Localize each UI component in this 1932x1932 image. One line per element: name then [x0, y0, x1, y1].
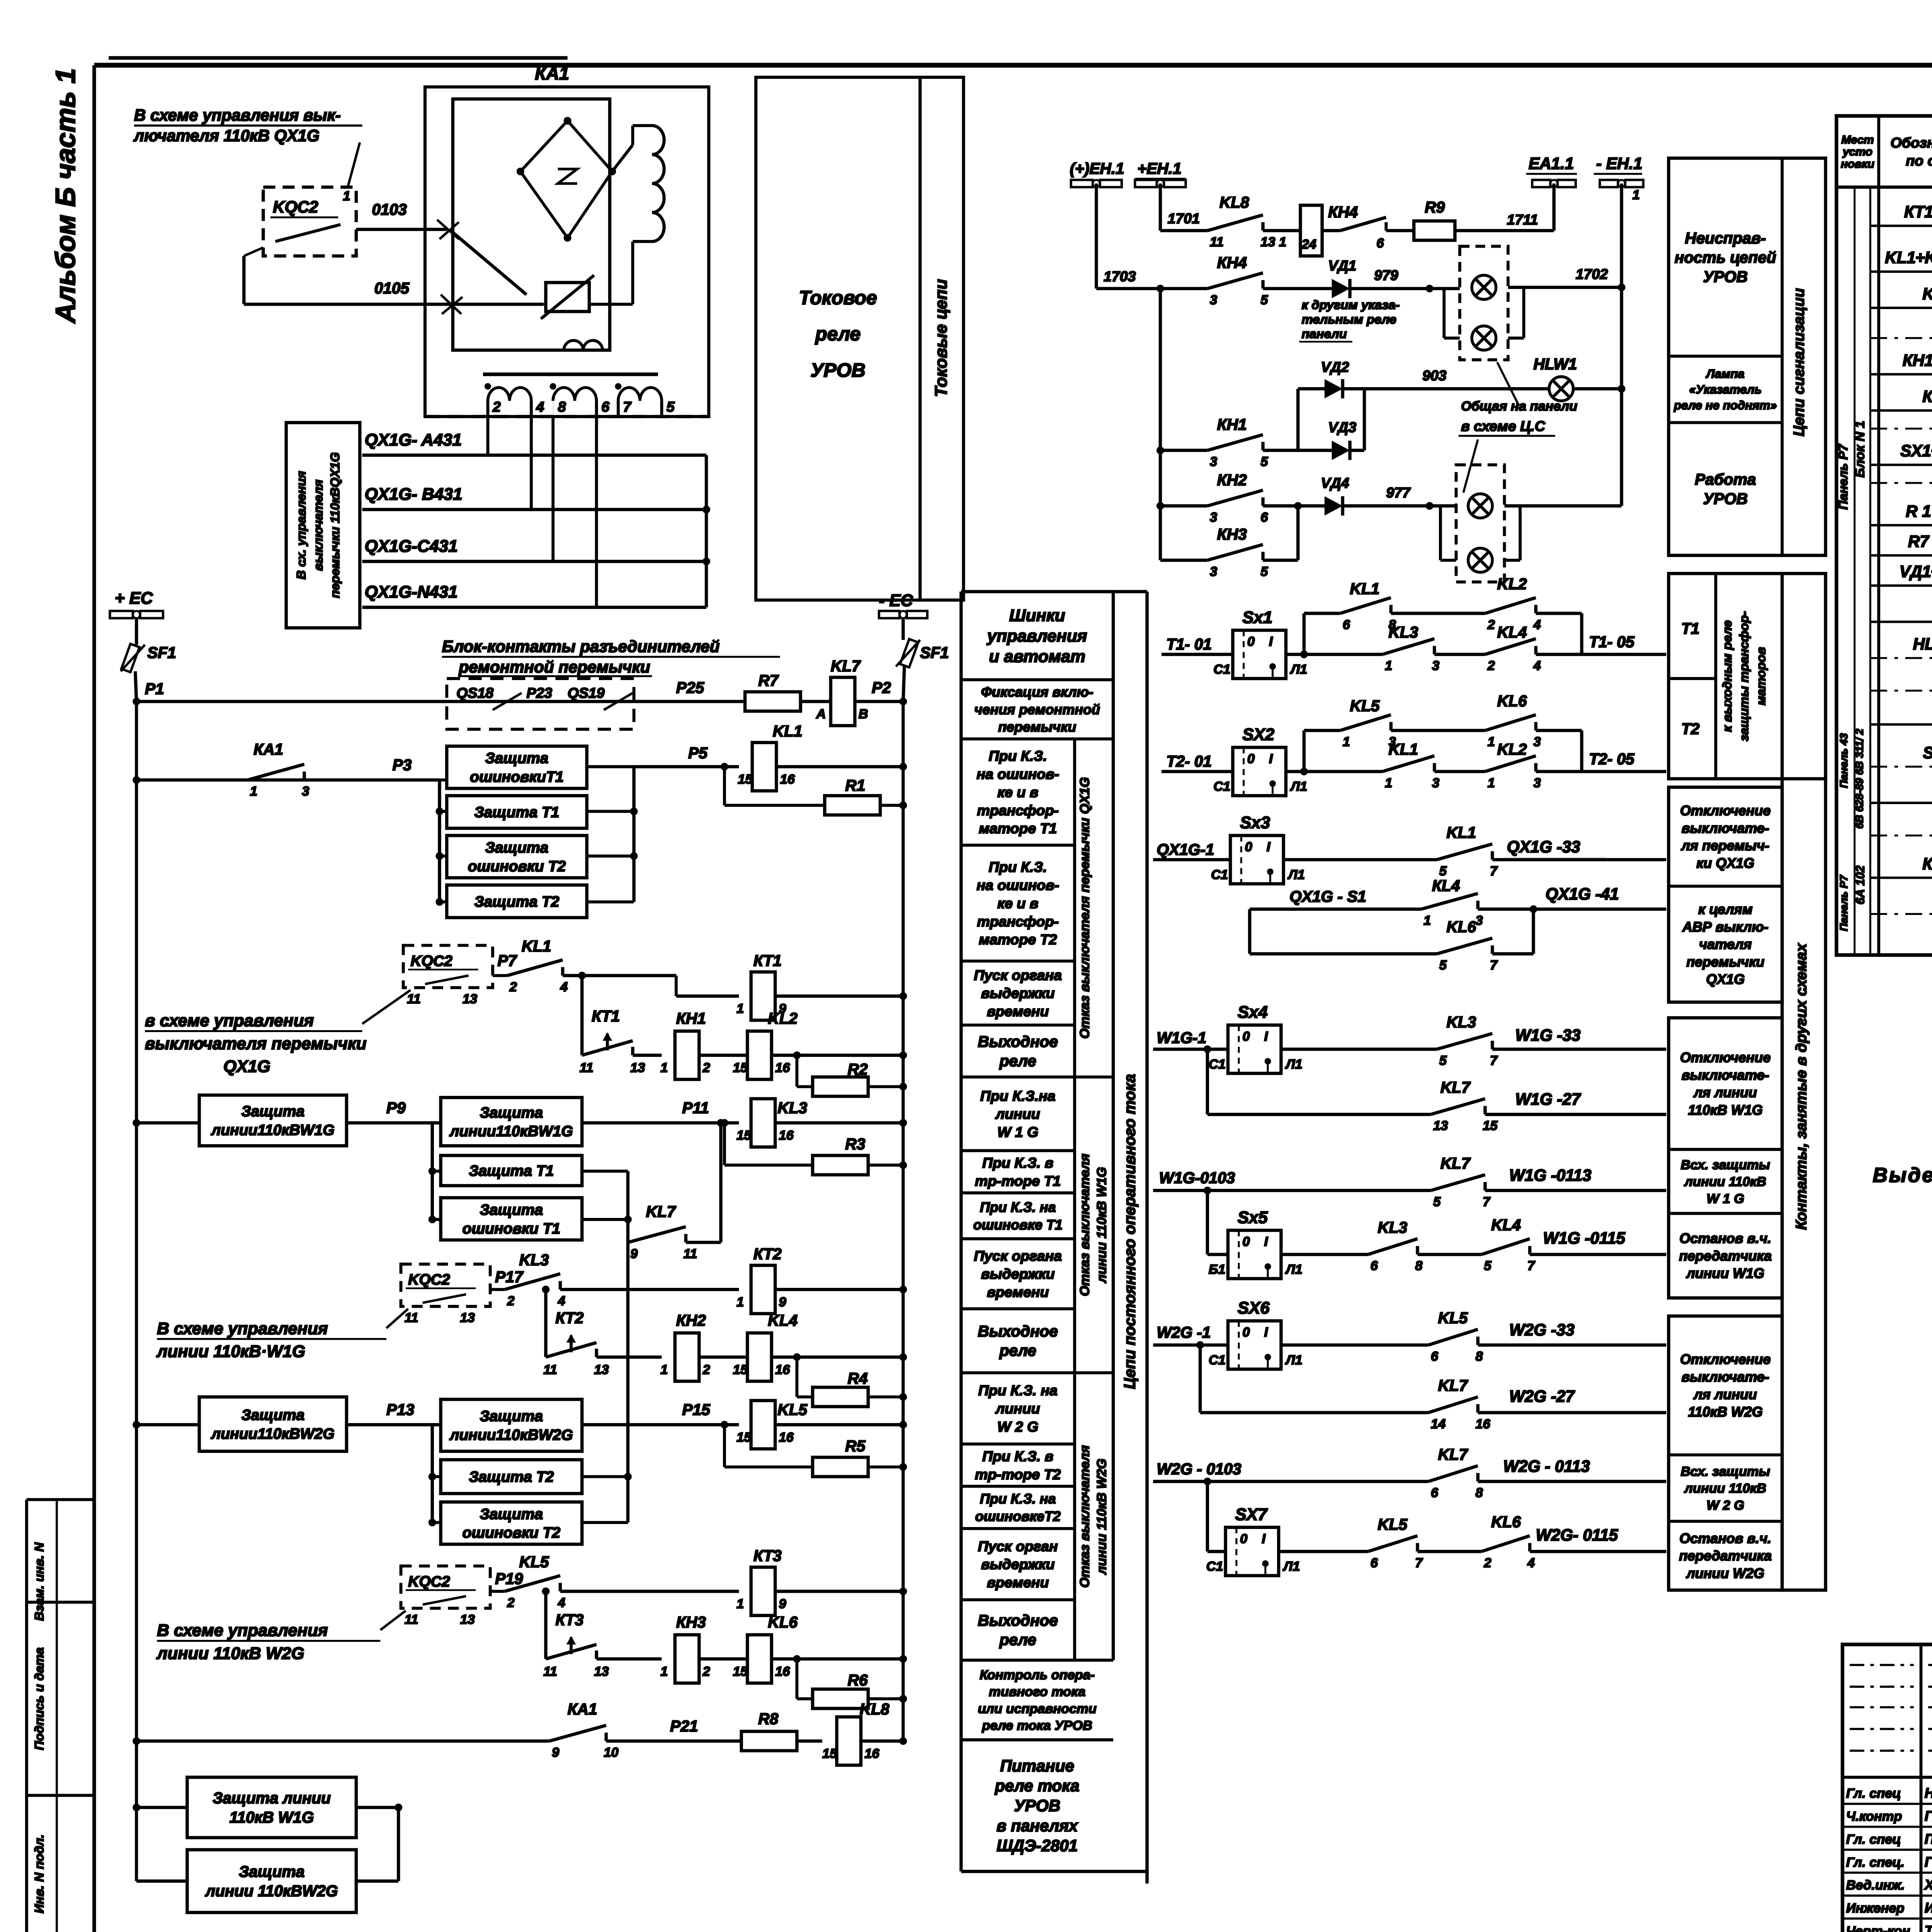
svg-text:ошиновкеТ2: ошиновкеТ2 [975, 1508, 1061, 1524]
svg-text:I: I [1264, 1325, 1269, 1340]
svg-text:в схеме управления: в схеме управления [145, 1011, 314, 1030]
svg-text:Вед.инж.: Вед.инж. [1846, 1878, 1905, 1893]
svg-text:или исправности: или исправности [978, 1701, 1097, 1716]
svg-text:I: I [1264, 1029, 1269, 1044]
svg-text:13: 13 [1433, 1119, 1448, 1133]
svg-text:11: 11 [543, 1362, 557, 1377]
svg-text:Защита: Защита [241, 1407, 304, 1423]
svg-text:5: 5 [1439, 1053, 1447, 1068]
svg-text:- ЕН.1: - ЕН.1 [1596, 154, 1643, 172]
svg-text:W 1 G: W 1 G [997, 1124, 1038, 1140]
svg-text:Блок N 1: Блок N 1 [1853, 421, 1867, 478]
svg-text:управления: управления [986, 626, 1087, 645]
svg-text:выключате-: выключате- [1682, 1067, 1769, 1083]
svg-text:трансфор-: трансфор- [977, 802, 1059, 818]
svg-text:Т2: Т2 [1681, 720, 1700, 738]
svg-text:HLW 1: HLW 1 [1913, 635, 1932, 653]
svg-text:+ EC: + EC [115, 588, 153, 607]
svg-text:Альбом Б часть 1: Альбом Б часть 1 [50, 68, 81, 324]
svg-text:15: 15 [736, 1430, 752, 1445]
svg-text:KL7: KL7 [1440, 1078, 1471, 1096]
svg-text:Т1- 05: Т1- 05 [1589, 633, 1635, 651]
svg-text:C1: C1 [1213, 662, 1230, 677]
svg-text:линии110кВW1G: линии110кВW1G [449, 1123, 573, 1140]
svg-text:ошиновке Т1: ошиновке Т1 [973, 1217, 1063, 1233]
svg-text:Отказ выключателя перемычки QX: Отказ выключателя перемычки QX1G [1078, 777, 1092, 1039]
svg-text:W2G - 0103: W2G - 0103 [1157, 1460, 1242, 1478]
svg-text:QX1G- A431: QX1G- A431 [365, 430, 462, 449]
svg-text:3: 3 [1533, 776, 1541, 790]
svg-text:7: 7 [1490, 864, 1498, 878]
svg-text:Sx3: Sx3 [1240, 813, 1270, 832]
svg-text:15: 15 [736, 1128, 752, 1143]
svg-text:УРОВ: УРОВ [1703, 490, 1748, 508]
svg-text:Черт-кон: Черт-кон [1846, 1924, 1910, 1932]
svg-text:110кВ W2G: 110кВ W2G [1688, 1404, 1763, 1420]
svg-text:Контроль опера-: Контроль опера- [980, 1668, 1095, 1682]
svg-text:5: 5 [1433, 1195, 1441, 1209]
svg-text:9: 9 [779, 1597, 786, 1611]
svg-text:HLW1: HLW1 [1533, 355, 1577, 373]
svg-text:16: 16 [779, 1430, 794, 1445]
svg-text:Защита: Защита [480, 1506, 543, 1522]
svg-text:14: 14 [1431, 1417, 1446, 1432]
svg-text:Обозначение: Обозначение [1890, 134, 1932, 151]
svg-text:16: 16 [779, 1128, 794, 1143]
svg-text:При К.З.на: При К.З.на [980, 1088, 1056, 1104]
svg-text:2: 2 [509, 980, 517, 994]
svg-text:2: 2 [507, 1294, 514, 1308]
svg-text:5: 5 [1260, 293, 1268, 307]
svg-text:P3: P3 [393, 756, 412, 774]
svg-text:KQC2: KQC2 [408, 1573, 450, 1590]
svg-text:тельным реле: тельным реле [1302, 312, 1396, 326]
svg-text:1: 1 [1385, 658, 1392, 673]
svg-text:маторе Т2: маторе Т2 [979, 931, 1057, 947]
svg-text:11: 11 [580, 1061, 594, 1075]
svg-text:выдержки: выдержки [981, 985, 1055, 1001]
svg-text:Токовое: Токовое [799, 287, 877, 308]
svg-text:Т1: Т1 [1681, 619, 1699, 637]
svg-text:Sx1: Sx1 [1242, 608, 1272, 627]
svg-text:KL7: KL7 [1440, 1155, 1471, 1172]
svg-text:7: 7 [1490, 1053, 1498, 1068]
svg-text:1: 1 [660, 1061, 668, 1075]
svg-text:15: 15 [1483, 1119, 1498, 1133]
svg-text:3: 3 [302, 784, 309, 799]
svg-text:KL2: KL2 [1497, 740, 1527, 758]
svg-text:ремонтной перемычки: ремонтной перемычки [458, 658, 650, 676]
svg-text:Лампа: Лампа [1706, 367, 1745, 381]
svg-text:W1G-1: W1G-1 [1157, 1029, 1207, 1047]
svg-text:линии W2G: линии W2G [1685, 1565, 1764, 1581]
svg-text:24: 24 [1301, 237, 1316, 252]
svg-text:KL8: KL8 [860, 1700, 889, 1718]
svg-text:P17: P17 [495, 1268, 524, 1286]
svg-text:C1: C1 [1206, 1559, 1223, 1574]
svg-text:чателя: чателя [1699, 936, 1752, 952]
svg-text:линии W1G: линии W1G [1685, 1265, 1764, 1281]
svg-text:ошиновки Т2: ошиновки Т2 [463, 1525, 561, 1541]
svg-text:W2G -1: W2G -1 [1157, 1323, 1211, 1341]
svg-text:В: В [859, 707, 868, 721]
svg-text:выключате-: выключате- [1682, 820, 1769, 836]
svg-text:8: 8 [1475, 1349, 1483, 1364]
svg-text:QX1G: QX1G [223, 1057, 270, 1076]
svg-text:ля линии: ля линии [1693, 1085, 1757, 1100]
svg-text:ошиновки Т1: ошиновки Т1 [463, 1220, 561, 1237]
svg-text:KL5: KL5 [777, 1401, 808, 1418]
svg-text:P5: P5 [688, 744, 708, 762]
svg-text:KL5: KL5 [1350, 697, 1380, 714]
svg-text:Л1: Л1 [1289, 662, 1307, 677]
svg-text:1: 1 [1488, 735, 1495, 749]
svg-text:линии 110кВ·W1G: линии 110кВ·W1G [156, 1342, 305, 1361]
svg-text:11: 11 [407, 992, 421, 1007]
svg-text:Защита: Защита [480, 1104, 543, 1121]
svg-text:ошиновкиТ1: ошиновкиТ1 [470, 769, 564, 786]
svg-text:13: 13 [463, 992, 477, 1007]
svg-text:10: 10 [604, 1745, 618, 1760]
svg-text:W2G- 0115: W2G- 0115 [1536, 1526, 1618, 1544]
svg-text:выдержки: выдержки [981, 1556, 1055, 1572]
svg-text:Панель Р7: Панель Р7 [1838, 874, 1850, 931]
svg-text:1: 1 [660, 1664, 668, 1679]
svg-text:11: 11 [543, 1664, 557, 1679]
svg-text:реле: реле [999, 1052, 1036, 1070]
svg-text:0: 0 [1245, 840, 1252, 854]
svg-text:QX1G-N431: QX1G-N431 [365, 583, 458, 602]
svg-text:3: 3 [1210, 510, 1217, 525]
svg-text:реле тока: реле тока [995, 1777, 1080, 1795]
svg-text:KQC2: KQC2 [408, 1272, 450, 1288]
svg-text:1: 1 [736, 1002, 744, 1016]
svg-text:5: 5 [1260, 564, 1268, 579]
svg-text:6: 6 [1371, 1259, 1378, 1273]
svg-text:W1G-0103: W1G-0103 [1159, 1169, 1235, 1187]
svg-text:1: 1 [1343, 735, 1350, 749]
svg-text:16: 16 [775, 1664, 790, 1679]
svg-text:КА1: КА1 [1922, 855, 1932, 873]
svg-text:C1: C1 [1213, 779, 1230, 794]
svg-text:КН1: КН1 [676, 1010, 706, 1027]
svg-text:1: 1 [1633, 188, 1640, 202]
svg-text:линии: линии [995, 1106, 1040, 1122]
svg-text:16: 16 [1475, 1417, 1490, 1432]
svg-text:C1: C1 [1209, 1057, 1226, 1071]
svg-text:R7 ÷ R9: R7 ÷ R9 [1908, 532, 1932, 550]
svg-text:P13: P13 [386, 1401, 415, 1418]
svg-text:выключателя перемычки: выключателя перемычки [145, 1034, 367, 1053]
svg-text:977: 977 [1386, 484, 1411, 500]
svg-text:2: 2 [1483, 1556, 1491, 1570]
svg-text:реле тока УРОВ: реле тока УРОВ [982, 1718, 1092, 1733]
svg-text:0103: 0103 [372, 201, 407, 218]
svg-text:VД4: VД4 [1321, 474, 1349, 491]
svg-text:реле: реле [999, 1631, 1036, 1649]
svg-text:9: 9 [630, 1247, 638, 1261]
svg-text:QX1G- B431: QX1G- B431 [365, 485, 463, 504]
svg-text:6А 102: 6А 102 [1854, 865, 1867, 904]
svg-text:QX1G-C431: QX1G-C431 [365, 537, 458, 556]
svg-text:времени: времени [987, 1574, 1049, 1590]
svg-text:КН4: КН4 [1217, 254, 1247, 272]
svg-text:линии110кВW1G: линии110кВW1G [211, 1122, 335, 1139]
svg-text:Всх. защиты: Всх. защиты [1681, 1158, 1770, 1172]
svg-text:4: 4 [536, 399, 544, 415]
svg-text:усто: усто [1842, 146, 1872, 158]
svg-text:Гл. спец: Гл. спец [1846, 1786, 1901, 1801]
svg-text:КТ3: КТ3 [555, 1611, 583, 1629]
svg-text:I: I [1267, 840, 1271, 854]
svg-text:защиты трансфор-: защиты трансфор- [1737, 611, 1751, 741]
svg-text:KL7: KL7 [1438, 1377, 1469, 1395]
svg-text:Б1: Б1 [1209, 1262, 1225, 1277]
svg-text:Пуск органа: Пуск органа [974, 967, 1062, 983]
svg-text:SF1: SF1 [920, 644, 949, 662]
svg-text:Пуск орган: Пуск орган [978, 1538, 1058, 1554]
svg-text:В схеме управления вык-: В схеме управления вык- [134, 106, 341, 124]
svg-text:Т2- 01: Т2- 01 [1167, 752, 1212, 770]
svg-text:к выходным реле: к выходным реле [1720, 620, 1734, 732]
svg-text:Ч.контр: Ч.контр [1846, 1809, 1902, 1824]
svg-text:6: 6 [1431, 1349, 1439, 1364]
svg-text:KL2: KL2 [1497, 575, 1527, 593]
svg-text:R3: R3 [845, 1135, 865, 1153]
svg-text:KL3: KL3 [1378, 1218, 1407, 1236]
svg-text:R1: R1 [845, 777, 865, 794]
svg-text:SX1÷ SX7: SX1÷ SX7 [1900, 442, 1932, 460]
svg-text:R7: R7 [758, 672, 779, 689]
svg-text:QS19: QS19 [568, 685, 605, 701]
svg-text:VД2: VД2 [1321, 359, 1349, 375]
svg-text:W 2 G: W 2 G [1707, 1498, 1744, 1513]
svg-text:Л1: Л1 [1289, 779, 1307, 794]
svg-text:0: 0 [1240, 1531, 1247, 1546]
svg-text:ля перемыч-: ля перемыч- [1681, 838, 1769, 854]
svg-text:Горелик: Горелик [1925, 1808, 1932, 1824]
svg-text:При К.З. в: При К.З. в [982, 1448, 1053, 1464]
svg-text:13: 13 [594, 1362, 609, 1377]
svg-text:Шинки: Шинки [1009, 606, 1065, 625]
svg-text:Л1: Л1 [1285, 1262, 1303, 1277]
svg-text:6В 628-89 6В 311/ 2: 6В 628-89 6В 311/ 2 [1854, 729, 1866, 829]
svg-text:0: 0 [1247, 634, 1255, 649]
svg-text:1: 1 [660, 1362, 668, 1377]
svg-text:Отключение: Отключение [1680, 803, 1771, 818]
svg-text:QX1G -41: QX1G -41 [1546, 885, 1619, 903]
svg-text:I: I [1269, 634, 1273, 649]
svg-text:времени: времени [987, 1003, 1049, 1019]
svg-text:линии 110кВ: линии 110кВ [1684, 1175, 1766, 1189]
svg-text:- EC: - EC [879, 591, 913, 610]
svg-text:ке и в: ке и в [997, 784, 1038, 800]
svg-text:на ошинов-: на ошинов- [976, 766, 1059, 782]
svg-text:SX2: SX2 [1242, 725, 1274, 744]
svg-text:линии110кВW2G: линии110кВW2G [211, 1425, 335, 1442]
svg-text:передатчика: передатчика [1679, 1248, 1772, 1264]
svg-text:Инв. N подл.: Инв. N подл. [32, 1834, 46, 1913]
svg-text:Л1: Л1 [1282, 1559, 1300, 1574]
svg-text:KL7: KL7 [1922, 285, 1932, 303]
svg-text:KL3: KL3 [519, 1251, 549, 1269]
svg-text:KL6: KL6 [768, 1613, 798, 1631]
svg-text:16: 16 [775, 1362, 790, 1377]
svg-text:Л1: Л1 [1285, 1353, 1303, 1367]
svg-text:SF1: SF1 [147, 644, 176, 662]
svg-text:VД1÷ VД4: VД1÷ VД4 [1900, 563, 1932, 581]
svg-text:R6: R6 [848, 1671, 868, 1689]
svg-text:16: 16 [864, 1747, 879, 1761]
svg-text:Неисправ-: Неисправ- [1685, 229, 1766, 247]
svg-text:P11: P11 [682, 1099, 709, 1117]
svg-text:W1G -27: W1G -27 [1515, 1090, 1582, 1108]
svg-text:Подпись и дата: Подпись и дата [32, 1648, 46, 1750]
svg-text:1701: 1701 [1168, 210, 1200, 226]
svg-text:реле: реле [999, 1342, 1036, 1359]
svg-text:Останов в.ч.: Останов в.ч. [1679, 1230, 1771, 1246]
svg-text:УРОВ: УРОВ [811, 359, 866, 381]
svg-text:P25: P25 [676, 679, 705, 697]
svg-text:Блок-контакты разъединителей: Блок-контакты разъединителей [442, 637, 720, 655]
svg-text:тр-торе Т1: тр-торе Т1 [975, 1173, 1061, 1189]
svg-text:3: 3 [1210, 293, 1217, 307]
svg-text:P2: P2 [872, 679, 891, 697]
svg-text:2: 2 [702, 1664, 710, 1679]
svg-text:6: 6 [1371, 1556, 1378, 1570]
svg-text:5: 5 [1439, 958, 1447, 973]
svg-text:Контакты, занятые в других: Контакты, занятые в других схемах [1793, 942, 1810, 1230]
svg-text:110кВ W1G: 110кВ W1G [230, 1808, 314, 1826]
svg-text:SX7: SX7 [1235, 1505, 1268, 1524]
svg-text:ошиновки Т2: ошиновки Т2 [468, 858, 566, 875]
svg-text:11: 11 [1210, 235, 1224, 249]
svg-text:KL4: KL4 [768, 1311, 798, 1329]
svg-text:УРОВ: УРОВ [1703, 268, 1748, 286]
svg-text:При К.З. на: При К.З. на [978, 1382, 1058, 1398]
svg-text:4: 4 [1533, 658, 1541, 673]
svg-text:KL1÷KL6,KL8: KL1÷KL6,KL8 [1885, 248, 1932, 267]
svg-text:Отключение: Отключение [1680, 1351, 1771, 1367]
svg-text:ЕА1.1: ЕА1.1 [1529, 154, 1574, 172]
svg-text:9: 9 [552, 1745, 559, 1760]
svg-text:При К.З. в: При К.З. в [982, 1155, 1053, 1171]
svg-text:(+)ЕН.1: (+)ЕН.1 [1070, 160, 1124, 177]
svg-text:КА1: КА1 [535, 63, 569, 83]
svg-text:1: 1 [736, 1295, 744, 1310]
svg-text:КН2: КН2 [1217, 471, 1247, 489]
svg-text:КА1: КА1 [568, 1700, 597, 1718]
svg-text:Токовые цепи: Токовые цепи [932, 279, 951, 397]
svg-text:7: 7 [1490, 958, 1498, 973]
svg-text:KL3: KL3 [777, 1099, 807, 1117]
svg-text:VД1: VД1 [1328, 257, 1356, 274]
svg-text:KL3: KL3 [1388, 623, 1418, 641]
svg-text:KL5: KL5 [1438, 1309, 1468, 1327]
svg-text:КТ3: КТ3 [753, 1547, 782, 1565]
svg-text:Защита: Защита [239, 1862, 304, 1880]
svg-text:7: 7 [1483, 1195, 1491, 1209]
svg-text:Отключение: Отключение [1680, 1049, 1771, 1065]
svg-text:KL6: KL6 [1446, 918, 1476, 935]
svg-text:W2G -33: W2G -33 [1509, 1321, 1575, 1339]
svg-text:SF1: SF1 [1923, 743, 1932, 762]
svg-text:5: 5 [1439, 864, 1447, 878]
svg-text:лючателя 110кВ QX1G: лючателя 110кВ QX1G [133, 127, 320, 145]
svg-text:KL1: KL1 [1388, 740, 1418, 758]
svg-text:новки: новки [1841, 158, 1874, 170]
svg-text:16: 16 [775, 1061, 790, 1075]
svg-text:1: 1 [736, 1597, 744, 1611]
svg-text:8: 8 [1475, 1486, 1483, 1500]
svg-text:КН2: КН2 [676, 1311, 706, 1329]
svg-text:В схеме управления: В схеме управления [157, 1621, 328, 1640]
svg-text:SX6: SX6 [1238, 1299, 1270, 1318]
svg-text:+ЕН.1: +ЕН.1 [1138, 160, 1182, 177]
svg-text:Т2- 05: Т2- 05 [1589, 750, 1635, 768]
svg-text:3: 3 [1432, 776, 1439, 790]
svg-text:Горелик: Горелик [1925, 1854, 1932, 1870]
svg-text:Выдержку времени реле КТ1÷КТ3: Выдержку времени реле КТ1÷КТ3 рекомендуе… [1872, 1164, 1932, 1187]
svg-text:Защита Т1: Защита Т1 [469, 1163, 554, 1179]
svg-text:линии110кВW2G: линии110кВW2G [449, 1427, 573, 1444]
svg-text:Иванова: Иванова [1925, 1900, 1932, 1916]
svg-text:Защита: Защита [241, 1103, 304, 1120]
svg-text:выключателя: выключателя [311, 480, 325, 571]
svg-text:5: 5 [1260, 454, 1268, 469]
svg-text:КТ1: КТ1 [753, 952, 782, 969]
svg-text:Питание: Питание [1000, 1757, 1074, 1775]
svg-text:2: 2 [492, 399, 501, 415]
svg-text:QX1G - S1: QX1G - S1 [1289, 888, 1366, 905]
svg-text:3: 3 [1210, 564, 1217, 579]
svg-text:При К.З.: При К.З. [989, 859, 1047, 875]
svg-text:I: I [1269, 752, 1273, 766]
svg-text:Мест: Мест [1841, 133, 1874, 146]
svg-text:«Указатель: «Указатель [1689, 383, 1762, 396]
svg-text:Л1: Л1 [1285, 1057, 1303, 1071]
svg-text:к другим указа-: к другим указа- [1302, 298, 1400, 312]
svg-text:6: 6 [1343, 617, 1350, 632]
svg-text:времени: времени [987, 1284, 1049, 1300]
svg-text:KL6: KL6 [1491, 1513, 1521, 1531]
svg-text:Работа: Работа [1695, 471, 1756, 488]
svg-text:1: 1 [1423, 913, 1431, 928]
svg-text:КН3: КН3 [676, 1613, 706, 1631]
svg-text:Гл. спец: Гл. спец [1846, 1832, 1901, 1847]
svg-text:перемычки: перемычки [1686, 954, 1764, 969]
svg-text:линии: линии [995, 1400, 1040, 1417]
svg-text:P19: P19 [495, 1570, 523, 1588]
svg-text:13: 13 [460, 1612, 475, 1627]
svg-text:4: 4 [560, 980, 568, 994]
svg-text:KQC2: KQC2 [410, 953, 452, 969]
svg-text:15: 15 [738, 772, 753, 787]
svg-text:В сх. управления: В сх. управления [294, 471, 308, 580]
svg-text:16: 16 [780, 772, 795, 787]
svg-text:P15: P15 [682, 1401, 711, 1418]
svg-text:А: А [816, 707, 826, 721]
svg-text:тр-торе Т2: тр-торе Т2 [975, 1466, 1061, 1482]
svg-text:W 1 G: W 1 G [1707, 1191, 1744, 1206]
svg-text:Общая на панели: Общая на панели [1461, 399, 1577, 413]
svg-text:0: 0 [1242, 1029, 1250, 1044]
svg-text:Пршисовски: Пршисовски [1925, 1831, 1932, 1847]
svg-text:маторе Т1: маторе Т1 [979, 820, 1057, 837]
svg-text:11: 11 [405, 1311, 418, 1325]
svg-text:11: 11 [405, 1612, 418, 1627]
svg-text:ля линии: ля линии [1693, 1386, 1757, 1402]
